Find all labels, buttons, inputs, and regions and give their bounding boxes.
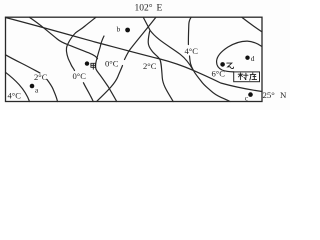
isotherm V1 upper arm (4C west upper, through X) — [143, 17, 193, 70]
character jia (drawn) — [91, 63, 96, 69]
character yi (drawn) — [227, 63, 234, 68]
svg-text:4°C: 4°C — [185, 46, 199, 56]
isotherm 0C east branch U (upper part) — [125, 17, 156, 59]
village box — [234, 72, 260, 82]
dot b — [125, 28, 130, 33]
svg-text:25°: 25° — [263, 90, 276, 100]
dot jia — [85, 61, 89, 65]
northeast corner arc (6C) — [242, 17, 262, 31]
svg-text:E: E — [157, 4, 163, 14]
svg-text:d: d — [251, 54, 255, 63]
svg-text:102°: 102° — [135, 3, 153, 14]
isotherm 0C west branch T (upper part) — [66, 17, 96, 70]
isotherm 2C east branch A2 — [148, 31, 173, 102]
svg-text:2°C: 2°C — [143, 61, 157, 71]
isotherm 2C southwest arc (upper part) — [6, 55, 41, 73]
svg-text:2°C: 2°C — [34, 72, 48, 82]
isotherm 4C southwest corner arc — [6, 72, 30, 101]
dot c — [248, 92, 253, 97]
isotherm 0C west branch T (lower part after label gap) — [83, 83, 93, 102]
dot a — [30, 84, 35, 89]
characters cun zhuang (drawn) in village box — [238, 73, 248, 80]
dot yi — [220, 62, 225, 67]
svg-text:N: N — [280, 90, 287, 100]
isotherm 4C line (lower part after label gap, east branch to bottom) — [190, 56, 231, 102]
dot d — [245, 56, 249, 60]
closed contour blob around yi and d (8C) — [217, 41, 262, 72]
svg-text:b: b — [117, 25, 121, 34]
river line R (long diagonal NW-SE) — [6, 18, 263, 92]
svg-text:0°C: 0°C — [105, 58, 119, 68]
svg-text:4°C: 4°C — [8, 90, 22, 100]
near-vertical strand Q — [95, 36, 116, 102]
isotherm 0C east branch U (lower part after label gap) — [97, 66, 123, 102]
svg-text:0°C: 0°C — [73, 71, 87, 81]
isotherm 2C southwest arc (lower part after label gap) — [47, 80, 58, 102]
isotherm S upper-left (2C west upper branch) — [29, 17, 97, 59]
svg-text:6°C: 6°C — [212, 68, 226, 78]
svg-text:a: a — [35, 86, 39, 95]
isotherm 4C line (vertical from top border, upper part) — [188, 17, 191, 44]
map frame border — [6, 17, 263, 101]
